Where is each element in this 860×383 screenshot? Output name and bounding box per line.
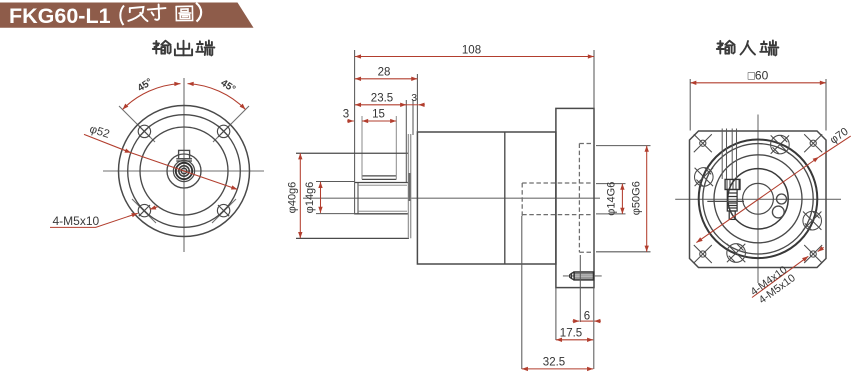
4-M4x10 / 4-M5x10 leader (752, 256, 808, 297)
corner hole TR (804, 134, 822, 152)
dim 28 (355, 78, 418, 80)
centerline vertical (183, 78, 185, 252)
extension screw6 (579, 255, 581, 322)
svg-text:28: 28 (378, 67, 391, 79)
端 (760, 41, 778, 56)
set screw axis (563, 275, 602, 277)
phi52 leader line (84, 134, 131, 152)
square60 extension right (825, 79, 827, 131)
svg-text:φ14G6: φ14G6 (606, 182, 618, 216)
spigot circle (714, 155, 802, 243)
dim phi14G6 (621, 184, 623, 214)
shaft bore circle bold (176, 163, 192, 179)
svg-text:□60: □60 (748, 69, 769, 83)
output shaft bottom (355, 213, 409, 215)
svg-text:φ40g6: φ40g6 (287, 182, 299, 214)
bolt hole right (22deg) (803, 211, 822, 230)
dim 3 right outside arrow (406, 104, 418, 106)
parenthesis right (196, 3, 201, 22)
dim 6 outside arrows (573, 320, 580, 322)
dim 15 (362, 120, 396, 122)
phi40 boss bottom line (296, 237, 409, 239)
main centerline (303, 197, 600, 199)
svg-text:φ50G6: φ50G6 (631, 181, 643, 215)
bolt hole top-right (217, 125, 229, 137)
diagonal centerline bottom-right (212, 199, 236, 223)
label 输出端 (output end) (153, 41, 215, 56)
bolt circle (128, 115, 241, 228)
center dot circle (181, 168, 187, 174)
small hole right lower (772, 206, 784, 218)
extension flange left down (555, 288, 557, 340)
svg-text:3: 3 (343, 109, 349, 121)
dim phi50G6 (646, 146, 648, 252)
hidden bore top (522, 182, 594, 184)
label 输入端 (input end) (717, 41, 779, 56)
char 寸 (brush) (148, 4, 166, 19)
phi70 leader (696, 157, 819, 243)
hidden recess bottom (579, 251, 593, 253)
clamp screw head (725, 179, 740, 189)
extension flange face down (593, 288, 595, 369)
phi50G6 extension lines (596, 145, 651, 147)
boss face dark segment (408, 173, 410, 201)
corner hole BL (694, 245, 712, 263)
dim 108 (355, 56, 594, 58)
boss face gray band (407, 134, 409, 238)
char 尺 (brush) (128, 7, 147, 21)
phi14 extension bottom (316, 213, 355, 215)
collar slit line (707, 200, 744, 202)
bolt hole bottom-right (217, 204, 229, 216)
extension bore down (521, 216, 523, 369)
svg-text:45°: 45° (136, 77, 155, 94)
svg-text:108: 108 (462, 45, 481, 57)
key top lines (362, 175, 396, 177)
diagonal centerline top-right (213, 106, 249, 142)
shaft end face (354, 50, 356, 215)
bolt hole bottom (112deg) (727, 244, 746, 263)
keyway (176, 150, 192, 161)
hidden bore bottom (522, 214, 594, 216)
shaft chamfer (357, 183, 359, 214)
output shaft top (355, 182, 409, 184)
svg-text:32.5: 32.5 (543, 356, 565, 368)
shaft chamfer edge top (358, 184, 407, 186)
hidden recess bottom line (578, 144, 580, 253)
small hole right upper (777, 194, 787, 204)
端 (196, 41, 214, 56)
extension line 28 (416, 74, 418, 132)
dim 3 left (key) (347, 120, 354, 122)
45 deg dimension arc right (188, 84, 246, 110)
dim phi40g6 (299, 153, 301, 238)
bolt hole left (202deg) (695, 168, 714, 187)
centerline vertical (757, 115, 759, 284)
bolt hole bottom-left (138, 204, 150, 216)
extension line 23.5 (405, 100, 407, 182)
dim square60 (690, 82, 826, 84)
extension line 3 (412, 100, 414, 135)
输 (153, 41, 171, 54)
svg-text:FKG60-L1: FKG60-L1 (9, 4, 111, 28)
shaft chamfer edge bottom (358, 210, 407, 212)
svg-text:17.5: 17.5 (560, 328, 582, 340)
body rectangle (417, 132, 556, 264)
extension line 108 right (593, 50, 595, 108)
corner hole TL (694, 134, 712, 152)
bolt hole top-left (138, 125, 150, 137)
outer flange circle (119, 106, 250, 237)
set screw thread lines (574, 273, 593, 275)
hidden recess top (579, 143, 593, 145)
corner hole BR (804, 245, 822, 263)
dim 32.5 (522, 368, 593, 370)
small circle (179, 166, 189, 176)
square60 extension left (689, 79, 691, 131)
出 (175, 41, 192, 56)
入 (741, 41, 756, 55)
diagonal centerline bottom-left (132, 199, 156, 223)
svg-text:4-M5x10: 4-M5x10 (53, 214, 100, 228)
title banner (0, 3, 254, 28)
svg-text:3: 3 (411, 92, 417, 104)
outer circle (699, 140, 818, 259)
set screw body (574, 272, 593, 280)
square flange outline (690, 131, 827, 268)
char 圖 (brush) (176, 6, 192, 20)
centerline horizontal (103, 170, 264, 172)
dim 17.5 (556, 339, 593, 341)
dim 23.5 (355, 104, 406, 106)
bolt hole top (292deg) (771, 135, 790, 154)
hub circle (167, 154, 201, 188)
parenthesis left (120, 6, 124, 26)
hub circle bold (728, 169, 788, 229)
second circle (703, 144, 813, 254)
45 deg dimension arc left (123, 84, 181, 110)
svg-text:23.5: 23.5 (371, 93, 393, 105)
phi40 boss top line (296, 152, 409, 154)
svg-text:15: 15 (372, 109, 385, 121)
svg-text:6: 6 (584, 310, 590, 322)
svg-text:φ14g6: φ14g6 (304, 182, 316, 214)
phi14G6 extension lines (596, 183, 626, 185)
body section joint (504, 132, 506, 264)
hidden bore end (521, 183, 523, 216)
diagonal centerline top-left (119, 106, 155, 142)
keyway extension left (361, 116, 363, 179)
svg-text:φ52: φ52 (88, 123, 111, 140)
clamp slot verticals (722, 129, 736, 180)
phi52 leader line inner (131, 153, 237, 190)
shaft circle (173, 160, 194, 181)
centerline horizontal (675, 198, 841, 200)
4-M5x10 leader (50, 213, 138, 227)
pilot circle (140, 127, 228, 215)
4-M5x10 far arrow (150, 207, 158, 210)
clamp screw shank (727, 190, 737, 220)
set screw tip (570, 272, 574, 280)
keyway extension right (395, 116, 397, 179)
输 (717, 41, 735, 54)
dim phi14g6 (320, 182, 322, 213)
input bore circle (743, 183, 774, 214)
rear flange rectangle (556, 108, 594, 287)
phi14 extension top (316, 181, 355, 183)
